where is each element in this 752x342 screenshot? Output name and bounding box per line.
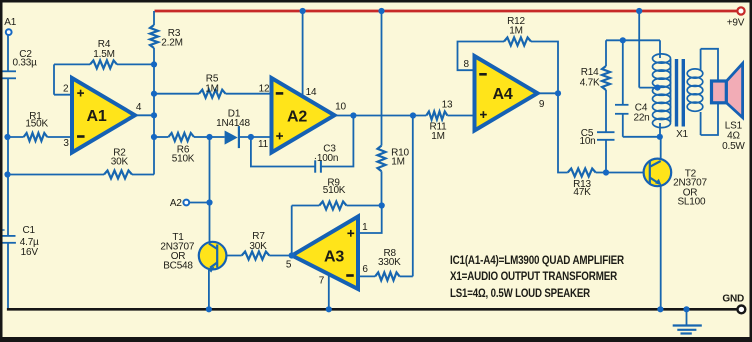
svg-text:BC548: BC548 (163, 261, 193, 272)
svg-text:330K: 330K (378, 257, 401, 268)
svg-text:1.5M: 1.5M (93, 49, 114, 60)
svg-text:12: 12 (259, 83, 270, 94)
svg-text:1M: 1M (205, 83, 219, 94)
svg-text:1M: 1M (431, 131, 445, 142)
svg-text:2.2M: 2.2M (161, 38, 182, 49)
svg-text:1M: 1M (391, 157, 405, 168)
svg-text:47K: 47K (573, 187, 591, 198)
svg-text:13: 13 (442, 99, 453, 110)
svg-text:IC1(A1-A4)=LM3900 QUAD AMPLIFI: IC1(A1-A4)=LM3900 QUAD AMPLIFIER (450, 253, 624, 267)
svg-text:A1: A1 (4, 17, 16, 28)
svg-text:10: 10 (335, 101, 346, 112)
svg-text:30K: 30K (249, 241, 267, 252)
svg-text:3: 3 (63, 138, 69, 149)
svg-text:·100n: ·100n (314, 153, 339, 164)
svg-text:22n: 22n (633, 112, 649, 123)
svg-text:11: 11 (258, 139, 269, 150)
svg-text:510K: 510K (172, 153, 195, 164)
svg-text:X1=AUDIO OUTPUT TRANSFORMER: X1=AUDIO OUTPUT TRANSFORMER (450, 269, 617, 283)
svg-text:GND: GND (722, 294, 744, 305)
svg-text:510K: 510K (323, 185, 346, 196)
svg-text:A4: A4 (492, 86, 512, 103)
svg-text:150K: 150K (25, 118, 48, 129)
svg-text:A2: A2 (170, 198, 182, 209)
svg-text:A2: A2 (287, 108, 307, 125)
svg-text:SL100: SL100 (677, 197, 706, 208)
svg-text:8: 8 (464, 59, 470, 70)
svg-text:1: 1 (362, 222, 368, 233)
svg-text:4Ω: 4Ω (727, 130, 740, 141)
svg-text:14: 14 (306, 87, 317, 98)
svg-text:4: 4 (136, 102, 142, 113)
svg-text:6: 6 (362, 264, 368, 275)
svg-text:X1: X1 (676, 129, 688, 140)
svg-text:0.5W: 0.5W (722, 141, 745, 152)
svg-text:+9V: +9V (727, 18, 745, 29)
svg-text:7: 7 (319, 275, 325, 286)
svg-text:10n: 10n (579, 136, 595, 147)
svg-text:16V: 16V (21, 247, 39, 258)
svg-text:C1: C1 (23, 225, 36, 236)
svg-text:0.33µ: 0.33µ (12, 57, 37, 68)
svg-text:5: 5 (286, 259, 292, 270)
svg-text:4.7K: 4.7K (580, 77, 600, 88)
svg-text:1N4148: 1N4148 (216, 118, 250, 129)
svg-text:2: 2 (63, 83, 69, 94)
svg-text:30K: 30K (111, 156, 129, 167)
svg-text:1M: 1M (509, 25, 523, 36)
svg-text:A3: A3 (324, 248, 344, 265)
svg-text:A1: A1 (86, 108, 106, 125)
svg-text:9: 9 (539, 99, 545, 110)
svg-text:LS1=4Ω, 0.5W LOUD SPEAKER: LS1=4Ω, 0.5W LOUD SPEAKER (450, 286, 590, 300)
